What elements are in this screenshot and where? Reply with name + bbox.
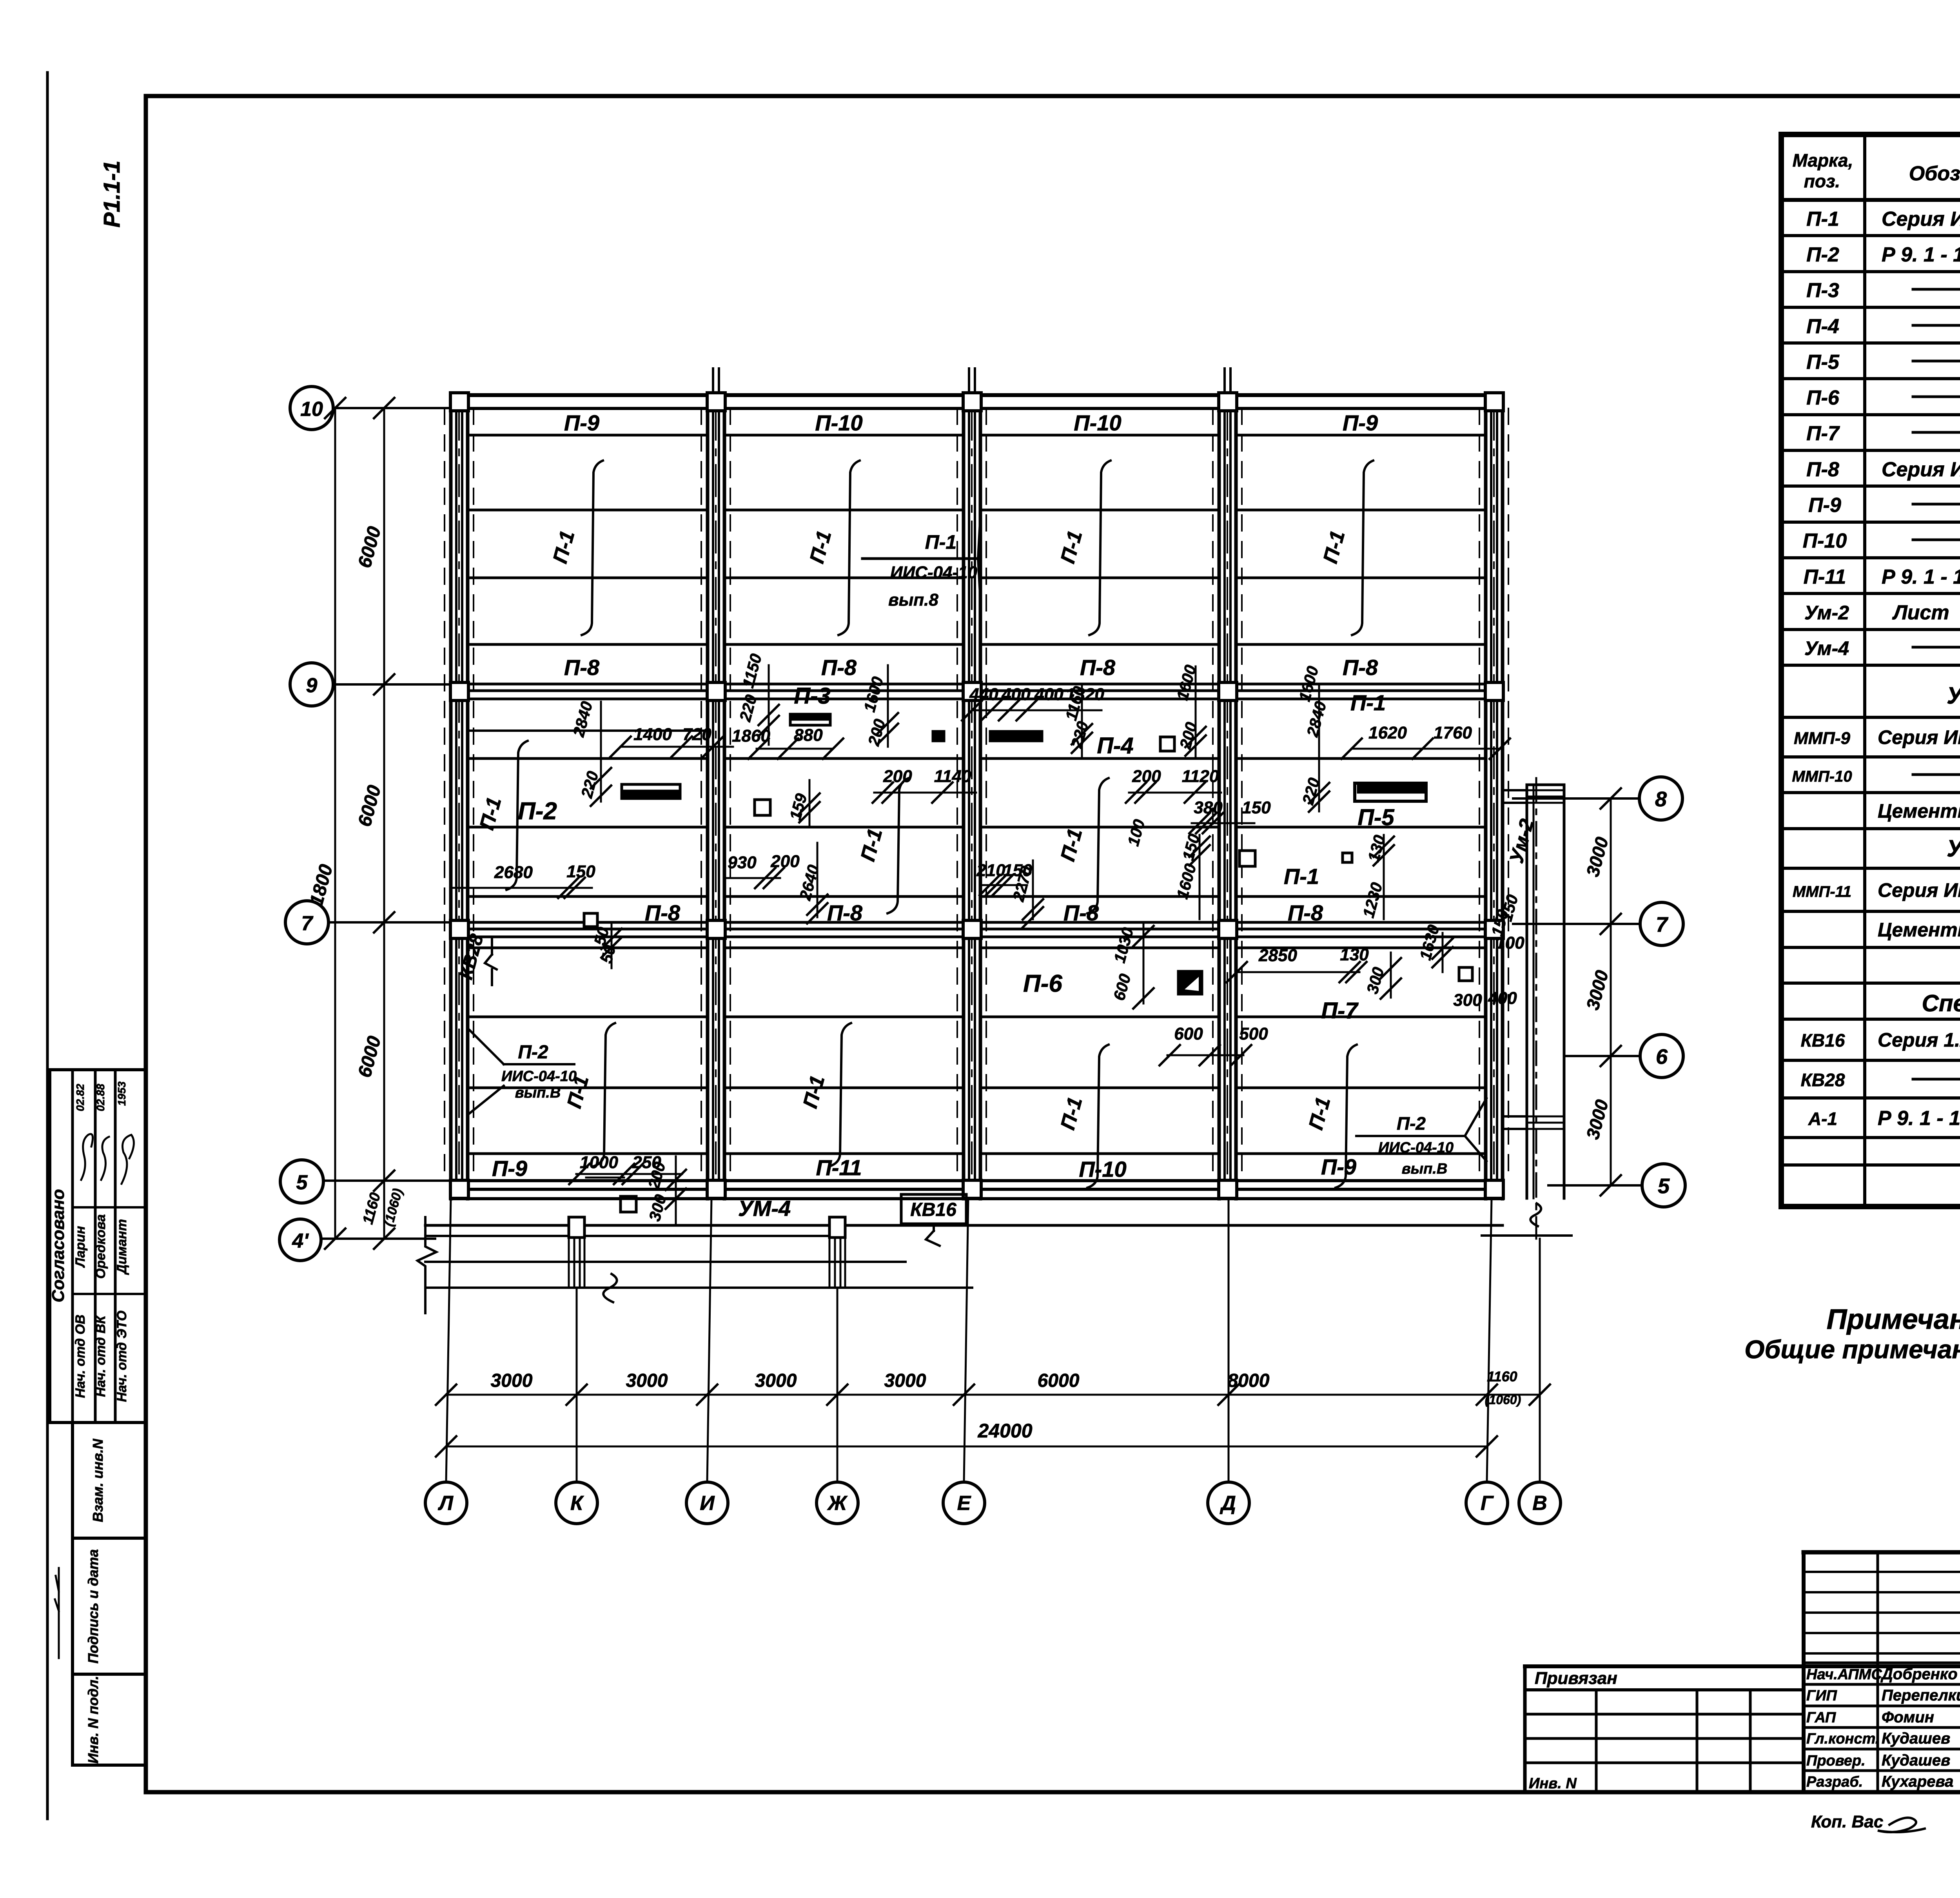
svg-text:Нач.АПМС: Нач.АПМС [1806,1666,1882,1683]
grid circle Е bottom [943,1482,985,1524]
plan: slab joint lines band 10-9 [468,434,708,437]
plan: left dim line inner [383,408,385,1239]
svg-text:П-1: П-1 [1806,208,1839,230]
grid circle К bottom [556,1482,597,1524]
row MMP-10 [1781,791,1960,794]
title block outline [1804,1550,1960,1555]
rows Um-2 Um-4 [1781,628,1960,631]
svg-text:Обозначение: Обозначение [1909,162,1960,185]
svg-text:В: В [1532,1492,1547,1515]
svg-text:Инв. N: Инв. N [1529,1775,1577,1792]
svg-text:вып.8: вып.8 [888,590,938,610]
svg-text:200: 200 [883,767,912,786]
svg-text:П-2: П-2 [518,798,557,825]
label KV16 box [901,1194,966,1224]
svg-text:ИИС-04-10: ИИС-04-10 [1378,1140,1454,1156]
svg-text:Д: Д [1220,1492,1236,1515]
svg-text:500: 500 [1239,1024,1268,1043]
row cement mortar 2 [1781,946,1960,949]
svg-text:Инв. N подл.: Инв. N подл. [85,1676,101,1764]
stub walls to strip [1503,789,1527,791]
section header Uzel P1 [1781,716,1960,719]
box Inv N podl [73,1674,146,1765]
svg-text:КВ16: КВ16 [1801,1030,1845,1051]
svg-text:П-10: П-10 [1074,410,1121,435]
svg-text:Коп. Вас: Коп. Вас [1811,1812,1883,1831]
plan: axis drop lines to circles [446,1199,451,1482]
svg-text:Нач. отд ВК: Нач. отд ВК [93,1315,108,1397]
svg-text:Согласовано: Согласовано [49,1189,68,1302]
svg-text:Фомин: Фомин [1882,1709,1934,1726]
svg-text:П-2: П-2 [518,1042,548,1063]
svg-text:4': 4' [292,1230,309,1252]
svg-text:Е: Е [957,1492,971,1515]
svg-text:3000: 3000 [491,1370,533,1391]
svg-text:1620: 1620 [1368,723,1407,742]
plan: horizontal wall bands [451,393,1503,397]
svg-text:1760: 1760 [1434,723,1472,742]
svg-text:130: 130 [1340,945,1369,964]
plan: left dim line outer (1800) [334,408,336,1239]
box Vzam inv N [73,1423,146,1538]
svg-text:7: 7 [1656,913,1669,936]
svg-text:П-5: П-5 [1806,351,1840,374]
svg-text:Разраб.: Разраб. [1806,1774,1863,1790]
svg-text:Примечание.: Примечание. [1827,1304,1960,1335]
svg-text:7: 7 [301,912,314,935]
svg-text:200: 200 [1132,767,1161,786]
svg-text:1120: 1120 [1182,767,1219,786]
svg-text:600: 600 [1174,1024,1203,1043]
svg-text:400: 400 [1488,989,1517,1008]
svg-text:Кудашев: Кудашев [1882,1752,1950,1769]
svg-text:8000: 8000 [1228,1370,1270,1391]
svg-text:Л: Л [437,1492,454,1515]
svg-text:3000: 3000 [884,1370,926,1391]
svg-text:П-8: П-8 [1080,655,1116,680]
svg-text:Серия ИИС-04-10 В.8: Серия ИИС-04-10 В.8 [1878,726,1960,748]
plan: wall stubs above axis 10 [712,368,714,395]
svg-text:Спецификация козырьков: Спецификация козырьков [1922,990,1960,1016]
plan: left extension lines [333,407,451,409]
svg-text:К: К [570,1492,584,1515]
grid circle 5 left [280,1160,323,1203]
svg-text:Р 9. 1 - 1: Р 9. 1 - 1 [1882,566,1960,588]
svg-text:02.88: 02.88 [94,1084,107,1111]
svg-text:(1060): (1060) [1485,1393,1521,1407]
svg-text:400: 400 [1034,685,1063,704]
svg-text:КВ28: КВ28 [1801,1070,1845,1090]
svg-text:Гл.конст.: Гл.конст. [1806,1731,1879,1747]
svg-text:П-10: П-10 [815,410,862,435]
plan: right dimension line [1610,798,1612,1185]
svg-text:ММП-11: ММП-11 [1793,883,1851,900]
svg-text:Перепелкин: Перепелкин [1882,1687,1960,1704]
table rows P-9 P-10 P-11 (two-line) [1781,521,1960,524]
svg-text:150: 150 [1242,798,1271,817]
svg-text:210: 210 [976,861,1005,880]
svg-text:Взам. инв.N: Взам. инв.N [90,1439,106,1522]
svg-text:400: 400 [1001,685,1031,704]
svg-text:2680: 2680 [494,863,533,882]
grid circle 5 right [1642,1164,1685,1207]
svg-text:ММП-10: ММП-10 [1792,768,1852,785]
section header Uzel P2 [1781,867,1960,870]
grid circle 7 left [285,901,328,944]
svg-text:2850: 2850 [1258,946,1297,965]
svg-text:Р 9. 1 - 1: Р 9. 1 - 1 [1878,1107,1960,1130]
svg-text:поз.: поз. [1804,171,1840,191]
svg-text:720: 720 [682,725,711,744]
signature rows [1804,1662,1960,1664]
svg-text:9: 9 [306,674,318,697]
plan: Um-2 monolithic strip right [1526,785,1528,1198]
grid circle 9 left [290,663,333,706]
svg-text:А-1: А-1 [1808,1109,1837,1129]
title block small grid top [1804,1571,1960,1573]
svg-text:200: 200 [770,852,800,871]
svg-text:П-6: П-6 [1806,386,1840,409]
svg-text:150: 150 [566,862,595,881]
right canopy line below strip [1482,1234,1572,1237]
row cement mortar 1 [1781,827,1960,830]
svg-text:П-9: П-9 [1808,494,1841,517]
svg-text:Кудашев: Кудашев [1882,1730,1950,1747]
svg-text:Цементный раствор: Цементный раствор [1878,800,1960,822]
grid circle 4' left [279,1219,321,1261]
svg-text:Общие примечания см. лист: Общие примечания см. лист АС-28. [1744,1335,1960,1364]
grid circle Ж bottom [817,1482,858,1524]
svg-text:Цементный раствор: Цементный раствор [1878,919,1960,941]
svg-text:вып.В: вып.В [1402,1161,1448,1177]
plan: vertical wall bands [449,395,453,1199]
svg-text:П-8: П-8 [827,900,863,925]
svg-text:6: 6 [1656,1045,1668,1069]
svg-text:Лист: Лист [1892,601,1949,624]
svg-text:Серия ИИС-04-4 В.10: Серия ИИС-04-4 В.10 [1882,458,1960,481]
left stamp: Soglasovano box [50,1070,146,1423]
break squiggle [603,1274,617,1302]
svg-text:1000: 1000 [580,1153,618,1172]
grid circle 8 right [1639,777,1682,820]
plan: right extension lines to grid circles [1513,797,1639,800]
svg-text:Ларин: Ларин [73,1226,88,1268]
svg-text:Серия 1.238-1 вып.1: Серия 1.238-1 вып.1 [1878,1029,1960,1051]
grid circle И bottom [686,1482,728,1524]
grid circle 7 right [1640,902,1683,945]
plan: extra slab line bay1 band 9-7 [468,729,708,732]
empty row [1781,982,1960,985]
box Podpis i data [73,1538,146,1674]
svg-text:Кухарева: Кухарева [1882,1773,1953,1790]
svg-text:вып.В: вып.В [515,1085,561,1101]
grid circle 10 left [290,386,333,430]
svg-text:П-9: П-9 [1321,1154,1356,1179]
svg-text:5: 5 [1658,1174,1670,1198]
plan: column squares at wall/axis intersections [450,393,468,411]
svg-text:6000: 6000 [1038,1370,1080,1391]
svg-text:24000: 24000 [977,1420,1032,1442]
plan: filled slab bars [622,784,680,798]
svg-text:Провер.: Провер. [1806,1753,1866,1769]
svg-text:880: 880 [794,726,823,745]
svg-text:ГАП: ГАП [1806,1709,1836,1726]
svg-text:Оредкова: Оредкова [93,1214,108,1279]
svg-text:Р 9. 1 - 1: Р 9. 1 - 1 [1882,243,1960,266]
table rows P-1..P-8 [1781,234,1960,237]
svg-text:П-2: П-2 [1397,1113,1426,1134]
svg-text:8: 8 [1655,788,1667,811]
grid circle Д bottom [1208,1482,1249,1524]
svg-text:10: 10 [300,398,323,421]
row MMP-11 [1781,910,1960,913]
svg-text:КВ16: КВ16 [910,1199,956,1220]
svg-text:П-4: П-4 [1097,733,1133,758]
svg-text:У з е л П 2: У з е л П 2 [1947,835,1960,862]
row KV16 [1781,1059,1960,1062]
grid circle 6 right [1640,1034,1683,1078]
plan: horizontal mini dimension lines [621,746,733,748]
svg-text:П-4: П-4 [1806,315,1839,338]
svg-text:Р1.1-1: Р1.1-1 [99,161,125,228]
svg-text:П-8: П-8 [564,655,600,680]
svg-text:5: 5 [296,1171,308,1194]
svg-text:П-9: П-9 [564,410,599,435]
plan: vertical mini dimension lines [600,702,602,802]
svg-text:ИИС-04-10: ИИС-04-10 [890,563,978,582]
svg-text:Подпись и дата: Подпись и дата [85,1549,101,1664]
row MMP-9 [1781,755,1960,758]
svg-text:380: 380 [1194,798,1223,817]
svg-text:930: 930 [728,853,757,872]
grid circle Г bottom [1466,1482,1508,1524]
svg-text:Нач. отд ЭТО: Нач. отд ЭТО [114,1310,129,1402]
svg-text:П-3: П-3 [1806,279,1839,302]
svg-text:Нач. отд ОВ: Нач. отд ОВ [73,1315,88,1398]
protrusion columns at K and Zh [568,1239,570,1288]
plan: protrusion below axis 5 [451,1198,901,1200]
svg-text:Ум-4: Ум-4 [1804,637,1849,659]
empty rows bottom [1781,1163,1960,1167]
svg-text:П-8: П-8 [1288,900,1323,925]
svg-text:1140: 1140 [934,767,971,786]
svg-text:П-2: П-2 [1806,243,1839,266]
svg-text:П-9: П-9 [492,1156,527,1181]
svg-text:П-8: П-8 [1063,900,1099,925]
row A-1 [1781,1136,1960,1139]
plan: slab joint lines band 7-5 [468,947,708,949]
row KV28 [1781,1096,1960,1100]
svg-text:3000: 3000 [626,1370,668,1391]
svg-text:300: 300 [1453,991,1482,1010]
svg-text:П-1: П-1 [1350,690,1386,715]
svg-text:1400: 1400 [633,725,672,744]
svg-text:П-11: П-11 [1804,566,1846,588]
svg-text:П-5: П-5 [1357,805,1394,830]
svg-text:П-8: П-8 [1343,655,1378,680]
svg-text:У з е л П 1: У з е л П 1 [1947,682,1960,709]
svg-text:П-10: П-10 [1803,530,1847,552]
grid circle Л bottom [425,1482,467,1524]
svg-text:Ж: Ж [827,1492,848,1515]
plan: bottom dim line 2 (24000) [446,1446,1487,1448]
plan: bottom dim line 1 [446,1394,1540,1396]
table header row [1781,198,1960,202]
grid circle В bottom [1519,1482,1561,1524]
svg-text:ММП-9: ММП-9 [1794,729,1851,748]
svg-text:Ум-2: Ум-2 [1804,602,1849,624]
privyazan box [1523,1666,1527,1792]
protrusion left break line [417,1217,436,1313]
svg-text:Димант: Димант [114,1219,129,1275]
svg-text:П-8: П-8 [821,655,857,680]
svg-text:440: 440 [969,685,998,704]
svg-text:И: И [700,1492,715,1515]
svg-text:Серия ИИС-04-4 В.10: Серия ИИС-04-4 В.10 [1882,208,1960,230]
svg-text:П-8: П-8 [1806,458,1839,481]
svg-text:Г: Г [1481,1492,1494,1515]
svg-text:П-9: П-9 [1343,410,1378,435]
svg-text:П-10: П-10 [1079,1157,1126,1181]
svg-text:3000: 3000 [755,1370,797,1391]
svg-text:1953: 1953 [116,1081,128,1106]
svg-text:П-6: П-6 [1023,970,1062,997]
plan: small hole squares [755,800,770,815]
svg-text:Привязан: Привязан [1535,1669,1617,1688]
svg-text:УМ-4: УМ-4 [738,1196,791,1221]
svg-text:П-1: П-1 [1284,864,1319,889]
break mark strip bottom [1530,1203,1541,1226]
svg-text:П-1: П-1 [925,531,956,553]
specification table frame [1781,134,1960,1207]
svg-text:П-8: П-8 [645,900,681,925]
svg-text:ИИС-04-10: ИИС-04-10 [501,1068,577,1085]
svg-text:1160: 1160 [1487,1368,1517,1384]
svg-text:1860: 1860 [732,726,770,746]
svg-text:Марка,: Марка, [1793,150,1853,171]
plan: slab joint lines band 9-7 [468,757,708,760]
svg-text:П-3: П-3 [794,683,830,709]
svg-text:П-7: П-7 [1806,422,1840,445]
svg-text:ГИП: ГИП [1806,1688,1837,1704]
svg-text:02.82: 02.82 [74,1084,86,1111]
outer trim line [46,73,49,1819]
svg-text:Серия ИИС-04-10 В.8: Серия ИИС-04-10 В.8 [1878,879,1960,901]
svg-text:П-7: П-7 [1321,998,1359,1023]
